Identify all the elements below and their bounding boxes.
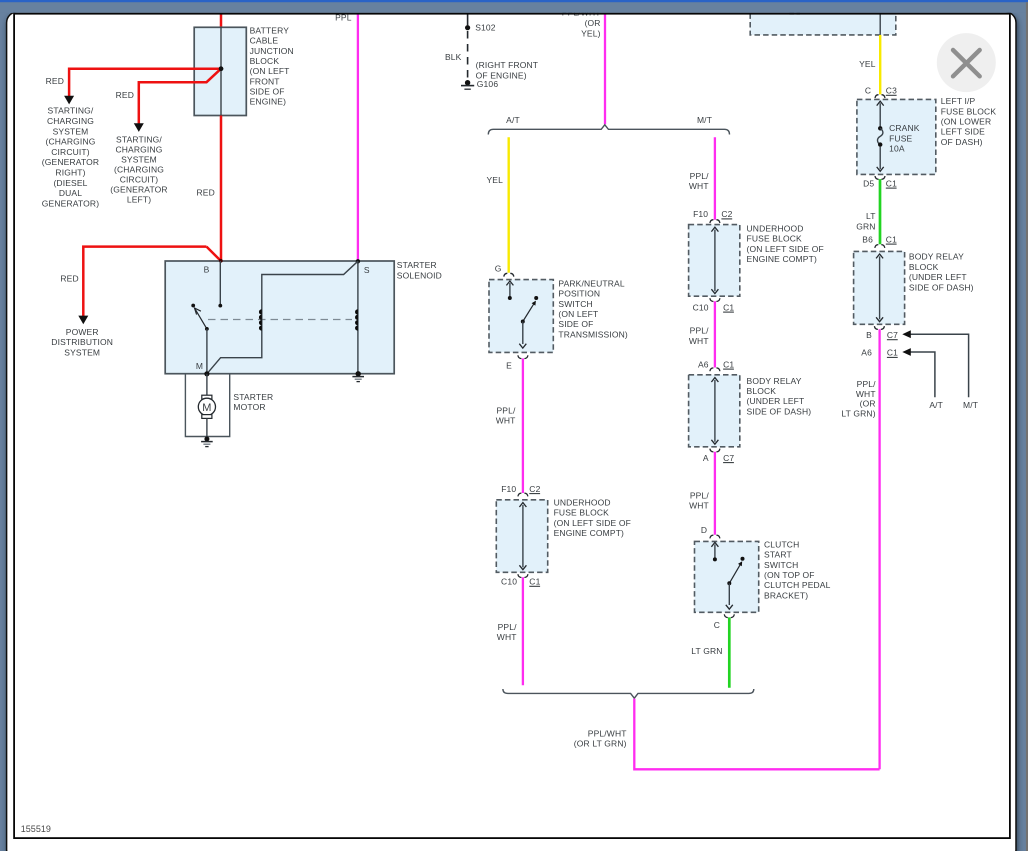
wire inside top block (879, 14, 881, 35)
svg-text:G: G (495, 264, 502, 274)
svg-text:M: M (196, 361, 203, 371)
svg-text:C: C (865, 86, 871, 96)
svg-text:LT: LT (866, 211, 876, 221)
connector bump B/C7 (874, 326, 884, 329)
body relay block (right) (854, 251, 905, 324)
starter motor ground (204, 437, 209, 442)
svg-text:RIGHT): RIGHT) (55, 168, 85, 178)
wire PPL/WHT C10 to A6 (714, 301, 716, 367)
solenoid B internal wire (219, 261, 221, 306)
svg-text:BLOCK: BLOCK (250, 56, 280, 66)
svg-text:FUSE BLOCK: FUSE BLOCK (554, 508, 610, 518)
svg-text:GENERATOR): GENERATOR) (42, 198, 99, 208)
wire RED to charging system right (69, 69, 221, 97)
park/neutral position switch (489, 280, 553, 353)
svg-text:S: S (364, 265, 370, 275)
svg-text:CLUTCH: CLUTCH (764, 539, 799, 549)
svg-text:(DIESEL: (DIESEL (53, 178, 87, 188)
close button (937, 33, 996, 92)
svg-text:(ON LOWER: (ON LOWER (941, 117, 991, 127)
wire RED to power distribution (83, 247, 206, 317)
svg-text:C7: C7 (723, 453, 734, 463)
connector bump D (710, 535, 720, 538)
svg-text:M/T: M/T (697, 115, 712, 125)
wire RED to charging system left (139, 69, 221, 124)
svg-text:SIDE OF: SIDE OF (250, 87, 285, 97)
battery cable junction block (194, 27, 246, 115)
svg-text:STARTER: STARTER (397, 260, 437, 270)
svg-text:POWER: POWER (66, 327, 99, 337)
node battery junction dot (over wires) (219, 66, 224, 71)
svg-text:RED: RED (116, 90, 134, 100)
wire PPL to solenoid S (357, 14, 359, 261)
wire PPL/WHT A to D (714, 452, 716, 535)
svg-text:RED: RED (46, 76, 64, 86)
svg-text:CABLE: CABLE (250, 36, 279, 46)
svg-text:RED: RED (196, 188, 214, 198)
svg-text:STARTER: STARTER (233, 392, 273, 402)
svg-text:M: M (202, 402, 211, 414)
solenoid hold-in coil line (357, 261, 359, 374)
svg-text:PPL/: PPL/ (690, 326, 710, 336)
connector bump C (724, 614, 734, 617)
wire PPL/WHT (OR LT GRN) right column (878, 329, 880, 769)
svg-text:FUSE BLOCK: FUSE BLOCK (941, 106, 997, 116)
svg-text:PPL/: PPL/ (857, 379, 877, 389)
svg-text:POSITION: POSITION (558, 289, 600, 299)
svg-text:RED: RED (60, 273, 78, 283)
svg-text:C2: C2 (721, 209, 732, 219)
svg-text:FUSE BLOCK: FUSE BLOCK (747, 234, 803, 244)
svg-text:A: A (703, 453, 709, 463)
node M junction dot (204, 371, 209, 376)
underhood fuse block (left) (496, 500, 547, 573)
ground G106 (465, 80, 470, 85)
wire YEL A/T branch (508, 137, 510, 272)
svg-text:C10: C10 (693, 302, 709, 312)
svg-text:BRACKET): BRACKET) (764, 590, 808, 600)
svg-text:UNDERHOOD: UNDERHOOD (554, 498, 611, 508)
svg-text:D5: D5 (863, 178, 874, 188)
svg-text:(RIGHT FRONT: (RIGHT FRONT (476, 60, 539, 70)
svg-text:FRONT: FRONT (250, 76, 280, 86)
svg-text:GRN: GRN (856, 221, 875, 231)
svg-text:BODY RELAY: BODY RELAY (747, 376, 802, 386)
svg-text:ENGINE COMPT): ENGINE COMPT) (747, 254, 817, 264)
clutch start switch (695, 541, 759, 612)
svg-text:MOTOR: MOTOR (233, 402, 265, 412)
svg-text:CIRCUIT): CIRCUIT) (51, 147, 90, 157)
starter motor M1 (198, 374, 215, 439)
svg-text:BLK: BLK (445, 52, 462, 62)
svg-text:(OR: (OR (585, 18, 601, 28)
crank fuse 10A (877, 101, 884, 171)
svg-text:(ON TOP OF: (ON TOP OF (764, 570, 815, 580)
top strip covering page edge (0, 0, 1028, 13)
solenoid switch (191, 304, 195, 308)
svg-text:LEFT): LEFT) (127, 194, 151, 204)
svg-text:ENGINE COMPT): ENGINE COMPT) (554, 528, 624, 538)
svg-text:(GENERATOR: (GENERATOR (42, 157, 99, 167)
svg-text:C7: C7 (887, 330, 898, 340)
coil 2 (355, 309, 358, 330)
svg-text:SYSTEM: SYSTEM (64, 347, 100, 357)
svg-text:SWITCH: SWITCH (764, 560, 798, 570)
wire PPL/WHT M/T branch (714, 137, 716, 219)
svg-text:LT GRN: LT GRN (691, 646, 722, 656)
svg-text:WHT: WHT (689, 501, 709, 511)
svg-text:C1: C1 (529, 577, 540, 587)
svg-text:OF DASH): OF DASH) (941, 137, 983, 147)
connector bump A6 (710, 368, 720, 371)
svg-text:BLOCK: BLOCK (747, 386, 777, 396)
connector bump A/C7 (710, 449, 720, 452)
svg-text:WHT: WHT (689, 336, 709, 346)
svg-text:YEL): YEL) (581, 28, 601, 38)
solenoid plunger dashed link (208, 319, 352, 321)
A/T M/T split brace (488, 125, 729, 135)
solenoid pull-in coil path (207, 261, 358, 374)
svg-text:PPL/WHT: PPL/WHT (588, 728, 627, 738)
svg-text:C1: C1 (723, 359, 734, 369)
svg-text:WHT: WHT (497, 632, 517, 642)
body relay block (middle) (689, 375, 740, 447)
svg-text:SYSTEM: SYSTEM (121, 154, 157, 164)
wire LT GRN from clutch switch (728, 617, 731, 687)
top partial fuse block (cut off) (750, 13, 896, 35)
svg-text:C3: C3 (886, 86, 897, 96)
node S102 (467, 14, 469, 25)
wire inside battery block (220, 27, 222, 115)
svg-text:10A: 10A (889, 144, 905, 154)
svg-text:CHARGING: CHARGING (115, 144, 162, 154)
svg-text:(OR LT GRN): (OR LT GRN) (574, 739, 627, 749)
svg-text:STARTING/: STARTING/ (116, 134, 162, 144)
svg-text:LT GRN): LT GRN) (841, 409, 875, 419)
svg-text:F10: F10 (693, 209, 708, 219)
svg-text:B: B (204, 265, 210, 275)
svg-text:C1: C1 (887, 348, 898, 358)
svg-text:C2: C2 (529, 484, 540, 494)
svg-text:PPL/: PPL/ (690, 491, 710, 501)
connector bump G (504, 273, 514, 276)
svg-text:SIDE OF DASH): SIDE OF DASH) (909, 282, 974, 292)
svg-text:(ON LEFT: (ON LEFT (250, 66, 290, 76)
svg-text:B6: B6 (862, 234, 873, 244)
node S junction dot (356, 259, 360, 263)
svg-text:PPL/: PPL/ (498, 622, 518, 632)
svg-text:B: B (866, 330, 872, 340)
wire PPL/WHT from E (522, 358, 524, 493)
svg-text:(ON LEFT SIDE OF: (ON LEFT SIDE OF (554, 518, 631, 528)
svg-text:CHARGING: CHARGING (47, 116, 94, 126)
svg-text:JUNCTION: JUNCTION (250, 46, 294, 56)
svg-text:(ON LEFT SIDE OF: (ON LEFT SIDE OF (747, 244, 824, 254)
svg-text:BLOCK: BLOCK (909, 262, 939, 272)
svg-text:DUAL: DUAL (59, 188, 82, 198)
coil 1 (259, 309, 262, 330)
svg-text:CIRCUIT): CIRCUIT) (120, 174, 159, 184)
svg-text:A/T: A/T (929, 400, 943, 410)
starter solenoid (165, 261, 394, 374)
svg-text:DISTRIBUTION: DISTRIBUTION (51, 337, 113, 347)
svg-text:C1: C1 (723, 302, 734, 312)
svg-text:STARTING/: STARTING/ (48, 106, 94, 116)
svg-text:UNDERHOOD: UNDERHOOD (747, 224, 804, 234)
connector bump D5 (875, 176, 885, 179)
svg-text:PPL/: PPL/ (690, 171, 710, 181)
svg-text:(ON LEFT: (ON LEFT (558, 309, 598, 319)
underhood fuse block (middle) (689, 225, 740, 297)
connector bump E (518, 355, 528, 358)
svg-text:PPL/: PPL/ (496, 406, 516, 416)
starter motor enclosure (185, 374, 229, 437)
svg-text:A6: A6 (698, 359, 709, 369)
svg-text:E: E (506, 360, 512, 370)
node S200 junction dot (219, 66, 224, 71)
svg-text:(CHARGING: (CHARGING (114, 164, 164, 174)
svg-text:YEL: YEL (859, 59, 876, 69)
svg-text:F10: F10 (501, 484, 516, 494)
svg-text:G106: G106 (477, 79, 499, 89)
svg-text:SOLENOID: SOLENOID (397, 270, 442, 280)
wire PPL/WHT (OR YEL) top center (604, 14, 606, 124)
svg-text:C: C (714, 620, 720, 630)
M/T source arrow into C7 (902, 330, 978, 410)
connector bump C10 mid (710, 298, 720, 301)
svg-text:(UNDER LEFT: (UNDER LEFT (747, 396, 805, 406)
svg-text:SIDE OF DASH): SIDE OF DASH) (747, 406, 812, 416)
connector bump C/C3 (875, 95, 885, 98)
wire RED battery to solenoid B (220, 116, 223, 261)
svg-text:ENGINE): ENGINE) (250, 97, 286, 107)
svg-text:WHT: WHT (689, 181, 709, 191)
svg-text:BODY RELAY: BODY RELAY (909, 252, 964, 262)
svg-text:A/T: A/T (506, 115, 520, 125)
svg-text:WHT: WHT (496, 416, 516, 426)
svg-text:WHT: WHT (856, 389, 876, 399)
svg-text:A6: A6 (861, 348, 872, 358)
connector bump F10 (518, 493, 528, 496)
svg-text:YEL: YEL (486, 175, 503, 185)
svg-text:(UNDER LEFT: (UNDER LEFT (909, 272, 967, 282)
svg-text:C10: C10 (501, 577, 517, 587)
wire RED battery feed (top) (220, 14, 223, 27)
node B junction dot (219, 259, 223, 263)
svg-text:BATTERY: BATTERY (250, 26, 290, 36)
A/T source arrow into C1 (902, 348, 943, 410)
svg-text:D: D (701, 525, 707, 535)
svg-text:C1: C1 (886, 178, 897, 188)
connector bump C10 (518, 574, 528, 577)
solenoid ground (356, 371, 361, 376)
svg-text:START: START (764, 550, 792, 560)
connector bump F10 mid (710, 220, 720, 223)
svg-text:(GENERATOR: (GENERATOR (110, 184, 167, 194)
svg-text:LEFT SIDE: LEFT SIDE (941, 127, 985, 137)
svg-text:TRANSMISSION): TRANSMISSION) (558, 329, 628, 339)
svg-text:FUSE: FUSE (889, 133, 912, 143)
svg-text:(CHARGING: (CHARGING (46, 137, 96, 147)
svg-text:CRANK: CRANK (889, 123, 920, 133)
wire LT GRN crank fuse to relay (879, 179, 882, 244)
wire YEL right column top (879, 35, 881, 95)
svg-text:CLUTCH PEDAL: CLUTCH PEDAL (764, 580, 831, 590)
svg-text:M/T: M/T (963, 400, 978, 410)
wire PPL/WHT from C10 to brace (522, 577, 524, 685)
svg-text:S102: S102 (475, 23, 496, 33)
svg-text:SWITCH: SWITCH (558, 299, 592, 309)
svg-text:PARK/NEUTRAL: PARK/NEUTRAL (558, 278, 624, 288)
right window edge strip (1026, 2, 1028, 851)
merge brace bottom (503, 689, 754, 698)
left I/P fuse block (857, 99, 936, 174)
wire PPL/WHT (OR LT GRN) output (634, 699, 879, 770)
connector bump B6 (875, 245, 885, 248)
wire BLK to G106 (467, 31, 469, 80)
svg-text:C1: C1 (886, 234, 897, 244)
svg-text:(OR: (OR (860, 398, 876, 408)
svg-text:LEFT I/P: LEFT I/P (941, 96, 976, 106)
svg-text:SYSTEM: SYSTEM (53, 126, 89, 136)
svg-text:SIDE OF: SIDE OF (558, 319, 593, 329)
svg-text:155519: 155519 (21, 824, 51, 834)
